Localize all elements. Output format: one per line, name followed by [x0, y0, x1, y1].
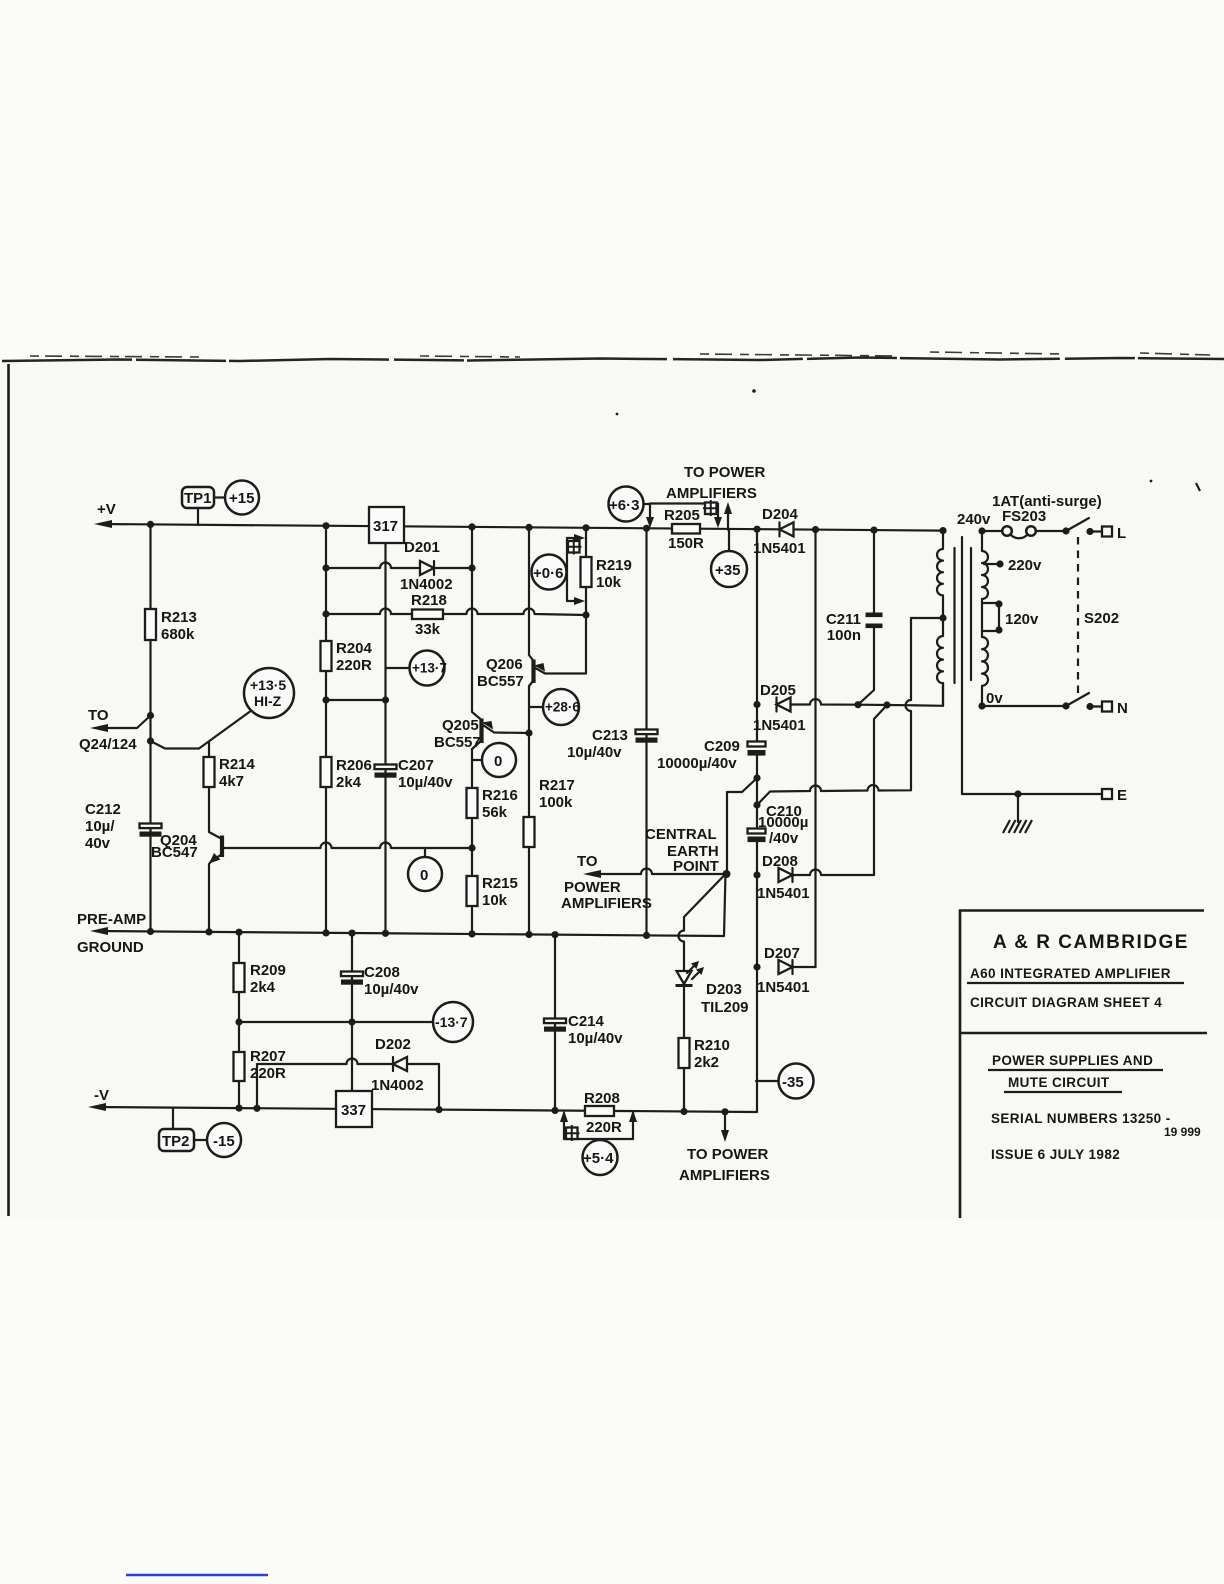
svg-text:POWER: POWER [564, 879, 621, 896]
primary tap 120v loop [983, 603, 999, 631]
transformer T1 secondary winding [937, 531, 943, 618]
-V rail left arrowhead [88, 1103, 106, 1111]
svg-text:TO: TO [88, 707, 109, 724]
wire earth line right (to transformer centre tap) [757, 618, 943, 805]
switch S202 pole L [1062, 527, 1069, 534]
svg-text:1N4002: 1N4002 [400, 576, 453, 593]
svg-text:R206: R206 [336, 757, 372, 774]
transformer T1 primary winding [982, 531, 988, 706]
node +35 circle [711, 551, 747, 587]
blue scan mark bottom [126, 1574, 268, 1576]
wire D201 node down to Q205 base [472, 568, 481, 720]
node C207 dot on ground rail [382, 930, 389, 937]
svg-text:R219: R219 [596, 557, 632, 574]
svg-text:C207: C207 [398, 757, 434, 774]
wire rail to D201 node [471, 527, 473, 568]
wire -35 stub [756, 1080, 778, 1082]
wire TP2 stub [172, 1108, 174, 1129]
node junction dot TO Q24 [147, 712, 154, 719]
svg-text:S202: S202 [1084, 610, 1119, 627]
node 0 circle upper [482, 743, 516, 777]
Q204 emitter with arrow [209, 854, 222, 932]
wire D202 bypass loop [257, 1059, 439, 1110]
svg-text:2k2: 2k2 [694, 1054, 719, 1071]
wire R218 line [326, 609, 586, 616]
svg-text:2k4: 2k4 [250, 979, 276, 996]
svg-text:120v: 120v [1005, 611, 1039, 628]
svg-text:680k: 680k [161, 626, 195, 643]
svg-text:-15: -15 [213, 1133, 235, 1150]
svg-text:A & R CAMBRIDGE: A & R CAMBRIDGE [993, 932, 1189, 953]
primary tap 220v [984, 563, 1000, 565]
test point TP2 [159, 1129, 194, 1151]
svg-text:R217: R217 [539, 777, 575, 794]
svg-text:R218: R218 [411, 592, 447, 609]
resistor R206 [321, 757, 332, 787]
node +15 circle [225, 481, 259, 515]
regulator 337 [336, 1091, 372, 1127]
svg-text:10k: 10k [482, 892, 508, 909]
resistor R215 [467, 876, 478, 906]
node dot R204 bottom [322, 696, 329, 703]
node C208 dot on ground rail [348, 930, 355, 937]
svg-text:C213: C213 [592, 727, 628, 744]
svg-text:220v: 220v [1008, 557, 1042, 574]
node 0 circle lower [408, 857, 442, 891]
wire TP1 to +15 circle [214, 496, 225, 498]
svg-text:R215: R215 [482, 875, 518, 892]
wire TO Q24/124 lead [96, 716, 151, 729]
svg-text:R205: R205 [664, 507, 700, 524]
svg-text:1N4002: 1N4002 [371, 1077, 424, 1094]
svg-text:-13·7: -13·7 [435, 1014, 468, 1030]
wire link R204 bottom to 317 ADJ [326, 699, 386, 701]
svg-text:220R: 220R [586, 1119, 622, 1136]
svg-text:1N5401: 1N5401 [753, 717, 806, 734]
node dot R218 left [322, 610, 329, 617]
wire D208 cathode line up to secondary bottom node [793, 705, 888, 875]
svg-text:POINT: POINT [673, 858, 719, 875]
wire C208 / 337 ADJ branch [351, 933, 353, 1091]
node C213 dot on ground rail [643, 932, 650, 939]
svg-text:TO POWER: TO POWER [687, 1146, 769, 1163]
node dot on rail at C211 [870, 527, 877, 534]
svg-text:SERIAL NUMBERS 13250 -: SERIAL NUMBERS 13250 - [991, 1111, 1171, 1126]
wire to power amplifiers earth line [589, 869, 727, 875]
terminal N [1102, 702, 1112, 712]
wire D204/D207 cathode vertical [814, 530, 816, 967]
wire D201 line [326, 563, 472, 569]
wire R209/R207 branch vertical [238, 932, 240, 1108]
node C214 dot on ground rail [551, 931, 558, 938]
wire R213/C212 branch vertical [149, 524, 151, 931]
node dot C211 connection [854, 701, 861, 708]
svg-text:R204: R204 [336, 640, 373, 657]
svg-text:BC557: BC557 [477, 673, 524, 690]
page border left edge [7, 364, 10, 1216]
svg-text:19 999: 19 999 [1164, 1125, 1201, 1139]
wire C213 branch vertical [645, 528, 647, 935]
resistor R213 [145, 609, 156, 640]
svg-text:D201: D201 [404, 539, 440, 556]
svg-text:1N5401: 1N5401 [753, 540, 806, 557]
svg-text:+V: +V [97, 501, 116, 518]
node dot D207 anode [753, 963, 760, 970]
measurement bracket for +6.3 across R205 [643, 504, 718, 522]
svg-text:TP2: TP2 [162, 1133, 190, 1150]
svg-text:+0·6: +0·6 [533, 565, 563, 582]
wire +V rail [100, 524, 943, 531]
svg-text:C211: C211 [826, 611, 861, 628]
svg-text:+28·6: +28·6 [545, 700, 580, 715]
node dot on rail right of D204 [812, 526, 819, 533]
node dot D202 left on -V rail [253, 1105, 260, 1112]
svg-text:0: 0 [420, 867, 428, 884]
node dot secondary top [939, 527, 946, 534]
svg-text:AMPLIFIERS: AMPLIFIERS [679, 1167, 770, 1184]
chassis ground symbol [1017, 794, 1019, 822]
node dot C208 bottom [348, 1018, 355, 1025]
svg-text:220R: 220R [250, 1065, 286, 1082]
title block box [960, 911, 1204, 1219]
switch S202 pole N [1062, 702, 1069, 709]
wire D205 anode line to transformer secondary bottom [791, 683, 944, 706]
svg-text:N: N [1117, 700, 1128, 717]
node junction dot on +V rail at R213 [147, 521, 154, 528]
node dot primary top 240v [978, 527, 985, 534]
wire down arrow to power amplifiers [724, 1112, 726, 1133]
test point TP1 [182, 487, 214, 508]
svg-text:C209: C209 [704, 738, 740, 755]
node dot on +V rail above D201 [468, 523, 475, 530]
node dot on +V rail at C213/bracket [643, 525, 650, 532]
wire R217 branch [528, 733, 530, 935]
svg-text:-35: -35 [782, 1074, 804, 1091]
node dot on +V rail at Q206 base [525, 524, 532, 531]
svg-text:GROUND: GROUND [77, 939, 144, 956]
svg-text:C208: C208 [364, 964, 400, 981]
svg-text:AMPLIFIERS: AMPLIFIERS [561, 895, 652, 912]
node R210 dot on -V rail [680, 1108, 687, 1115]
node junction dot +13.5 branch [147, 737, 154, 744]
svg-text:A60 INTEGRATED AMPLIFIER: A60 INTEGRATED AMPLIFIER [970, 966, 1171, 981]
svg-text:10µ/40v: 10µ/40v [398, 774, 453, 791]
svg-text:FS203: FS203 [1002, 508, 1046, 525]
svg-text:PRE-AMP: PRE-AMP [77, 911, 146, 928]
wire stub to +28.6 [529, 706, 543, 708]
svg-text:CIRCUIT DIAGRAM SHEET 4: CIRCUIT DIAGRAM SHEET 4 [970, 995, 1162, 1010]
speck [1196, 483, 1200, 491]
svg-text:D203: D203 [706, 981, 742, 998]
svg-text:+13·5: +13·5 [250, 677, 286, 693]
node +0.6 circle [532, 555, 567, 590]
wire earth line left (C209/C210 midpoint to central earth point) [727, 778, 757, 874]
svg-text:R213: R213 [161, 609, 197, 626]
node +13.5 HI-Z circle [244, 668, 294, 718]
wire stub to +35 [728, 530, 730, 551]
node dot D208 anode [753, 871, 760, 878]
wire main rectifier vertical (+35 to -35 through C209/C210) [756, 529, 758, 1112]
resistor R214 [204, 757, 215, 787]
svg-text:/40v: /40v [769, 830, 799, 847]
node Q204 emitter dot on ground rail [205, 928, 212, 935]
Q205 emitter with arrow [482, 724, 530, 733]
TO Q24/124 arrowhead [90, 724, 108, 732]
svg-text:337: 337 [341, 1102, 366, 1119]
svg-text:-V: -V [94, 1087, 109, 1104]
svg-text:MUTE CIRCUIT: MUTE CIRCUIT [1008, 1075, 1110, 1090]
svg-text:10µ/40v: 10µ/40v [568, 1030, 623, 1047]
node dot on +V rail at D204 anode-side [753, 526, 760, 533]
svg-text:D204: D204 [762, 506, 799, 523]
svg-text:C214: C214 [568, 1013, 605, 1030]
svg-text:+5·4: +5·4 [583, 1150, 614, 1167]
node central earth point [723, 870, 731, 878]
wire +13.7 stub [386, 667, 411, 669]
wire +13.5 HI-Z branch [151, 712, 251, 749]
svg-text:+6·3: +6·3 [609, 497, 639, 514]
wire -V rail [94, 1107, 756, 1112]
page border top torn edge [2, 358, 1224, 362]
svg-text:CENTRAL: CENTRAL [645, 826, 717, 843]
svg-text:4k7: 4k7 [219, 773, 244, 790]
wire stub to 0 circle upper [472, 759, 482, 761]
resistor R210 [679, 1038, 690, 1068]
node dot R209 bottom [235, 1018, 242, 1025]
svg-text:+35: +35 [715, 562, 740, 579]
wire Q206 base vertical from rail [529, 527, 534, 661]
polarity mark +square at R219 bracket [568, 541, 580, 553]
regulator 317 [369, 507, 404, 543]
svg-text:POWER SUPPLIES AND: POWER SUPPLIES AND [992, 1053, 1153, 1068]
terminal E [1102, 789, 1112, 799]
resistor R204 [321, 641, 332, 671]
node R207 dot on -V rail [235, 1105, 242, 1112]
wire C211 branch from rail [858, 530, 874, 705]
svg-text:+13·7: +13·7 [412, 661, 447, 676]
resistor R209 [234, 963, 245, 992]
node +28.6 circle [543, 689, 579, 725]
node dot on +V rail at R219 [582, 524, 589, 531]
node dot D205 cathode [753, 701, 760, 708]
wire D207 cathode up to D204 [793, 966, 816, 968]
node R206 dot on ground rail [322, 929, 329, 936]
svg-text:220R: 220R [336, 657, 372, 674]
wire LED to R210 [683, 986, 685, 1112]
wire 317 ADJ / C207 vertical [384, 543, 386, 933]
node R209 dot on ground rail [235, 929, 242, 936]
node dot R216 bottom junction [468, 844, 475, 851]
svg-text:D202: D202 [375, 1036, 411, 1053]
node C214 dot on -V rail [551, 1107, 558, 1114]
svg-text:BC547: BC547 [151, 844, 198, 861]
svg-text:AMPLIFIERS: AMPLIFIERS [666, 485, 757, 502]
speck [616, 413, 619, 416]
node dot Q205 emitter / R217 junction [525, 729, 532, 736]
svg-text:TO POWER: TO POWER [684, 464, 766, 481]
node +6.3 circle [609, 487, 644, 522]
node dot ADJ junction [382, 696, 389, 703]
svg-text:0: 0 [494, 753, 502, 770]
svg-text:33k: 33k [415, 621, 441, 638]
svg-text:TIL209: TIL209 [701, 999, 749, 1016]
svg-text:317: 317 [373, 518, 398, 535]
svg-text:R214: R214 [219, 756, 256, 773]
svg-text:Q24/124: Q24/124 [79, 736, 137, 753]
node -13.7 circle [433, 1002, 473, 1042]
svg-text:150R: 150R [668, 535, 704, 552]
transformer core lines [953, 548, 955, 683]
node dot R219 bottom / R218 junction [582, 611, 589, 618]
wire C214 branch [554, 935, 556, 1111]
speck [1150, 480, 1153, 483]
node +13.7 circle [410, 651, 445, 686]
resistor R219 [581, 557, 592, 587]
svg-text:L: L [1117, 525, 1126, 542]
node dot on +V rail at R204 [322, 522, 329, 529]
svg-text:1N5401: 1N5401 [757, 979, 810, 996]
svg-text:C212: C212 [85, 801, 121, 818]
+V rail left arrowhead [94, 520, 112, 528]
wire -13.7 line [239, 1021, 433, 1023]
wire up arrow to power amplifiers [727, 510, 729, 530]
node dot D201 right [468, 564, 475, 571]
measurement loop for +5.4 across R208 [564, 1113, 633, 1139]
node R215 dot on ground rail [468, 930, 475, 937]
node dot down arrow on -V rail [721, 1108, 728, 1115]
wire 0v line to N switch [982, 705, 1066, 707]
svg-text:100n: 100n [827, 627, 861, 644]
node -35 circle [779, 1064, 814, 1099]
wire R215 to ground [471, 848, 473, 934]
svg-text:R207: R207 [250, 1048, 286, 1065]
svg-text:HI-Z: HI-Z [254, 693, 282, 709]
svg-text:10µ/40v: 10µ/40v [364, 981, 419, 998]
svg-text:Q205: Q205 [442, 717, 479, 734]
resistor R216 [467, 788, 478, 818]
node dot primary bottom 0v [978, 702, 985, 709]
svg-text:10µ/: 10µ/ [85, 818, 115, 835]
node dot below C209 (earth left) [753, 774, 760, 781]
svg-text:100k: 100k [539, 794, 573, 811]
wire Q204 collector line to R216/R215 junction [222, 843, 472, 849]
wire TP2 to -15 circle [194, 1139, 207, 1141]
svg-text:+15: +15 [229, 490, 254, 507]
node dot D208 cathode connection [883, 701, 890, 708]
svg-text:1N5401: 1N5401 [757, 885, 810, 902]
wire stub to 0 circle lower [424, 848, 426, 857]
node dot D201 left [322, 564, 329, 571]
svg-text:TP1: TP1 [184, 490, 212, 507]
wire earth screen line to E terminal [962, 793, 1102, 795]
svg-text:R208: R208 [584, 1090, 620, 1107]
resistor R217 [524, 817, 535, 847]
speck [752, 389, 756, 393]
svg-text:TO: TO [577, 853, 598, 870]
svg-text:D207: D207 [764, 945, 800, 962]
svg-text:ISSUE 6 JULY 1982: ISSUE 6 JULY 1982 [991, 1147, 1120, 1162]
Q206 emitter with arrow [534, 615, 587, 674]
wire D203/R210 branch [679, 874, 726, 971]
svg-text:R209: R209 [250, 962, 286, 979]
svg-text:2k4: 2k4 [336, 774, 362, 791]
node +5.4 circle [583, 1140, 618, 1175]
wire PRE-AMP ground rail with corner up to central earth point [96, 874, 726, 936]
svg-text:E: E [1117, 787, 1127, 804]
svg-text:10k: 10k [596, 574, 622, 591]
Q205 collector [472, 741, 482, 849]
svg-text:R210: R210 [694, 1037, 730, 1054]
terminal L [1102, 527, 1112, 537]
node dot D202 right on -V rail [435, 1106, 442, 1113]
polarity mark +square at R205 bracket [705, 503, 717, 515]
resistor R207 [234, 1052, 245, 1081]
wire R204/R206 branch vertical [325, 526, 327, 933]
wire R214 branch [209, 742, 222, 839]
svg-text:0v: 0v [986, 690, 1003, 707]
svg-text:Q206: Q206 [486, 656, 523, 673]
svg-text:10µ/40v: 10µ/40v [567, 744, 622, 761]
svg-text:40v: 40v [85, 835, 111, 852]
left arrowhead to power amplifiers [583, 870, 601, 878]
LED D203 TIL209 [677, 971, 692, 984]
wire TP1 stub [197, 508, 199, 525]
node C212 dot on ground rail [147, 928, 154, 935]
node dot secondary centre tap [939, 614, 946, 621]
svg-text:10000µ/40v: 10000µ/40v [657, 755, 737, 772]
node -15 circle [207, 1123, 241, 1157]
measurement bracket for +0.6 across R219 [567, 538, 578, 601]
PRE-AMP ground arrowhead [90, 927, 108, 935]
switch S202 dashed link [1077, 537, 1079, 698]
Q206 collector down [529, 681, 534, 734]
node R217 dot on ground rail [525, 931, 532, 938]
svg-text:R216: R216 [482, 787, 518, 804]
node dot earth stub [1014, 790, 1021, 797]
svg-text:56k: 56k [482, 804, 508, 821]
node dot above C210 (earth right) [753, 801, 760, 808]
svg-text:240v: 240v [957, 511, 991, 528]
polarity mark +square at R208 loop [566, 1128, 578, 1140]
wire R219 branch vertical [585, 528, 587, 615]
